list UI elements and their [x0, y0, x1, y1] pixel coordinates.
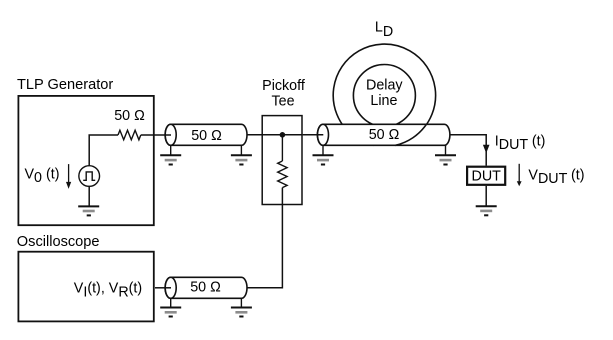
coax cable 2 left end	[165, 277, 176, 298]
svg-text:Delay: Delay	[366, 77, 403, 93]
node junction dot	[280, 132, 286, 138]
svg-text:Pickoff: Pickoff	[262, 78, 305, 94]
wire coax1 to tee	[247, 134, 303, 136]
svg-text:50 Ω: 50 Ω	[190, 279, 221, 295]
wire osc to bottom coax	[155, 287, 171, 289]
wire resistor to coax1	[141, 134, 171, 136]
delay line front arc	[395, 124, 426, 145]
ground coax2 right	[231, 298, 252, 316]
svg-text:Oscilloscope: Oscilloscope	[17, 234, 100, 250]
svg-text:Tee: Tee	[271, 93, 294, 109]
source U1 pulse generator	[79, 166, 100, 187]
svg-text:TLP Generator: TLP Generator	[17, 77, 113, 93]
svg-text:DUT: DUT	[472, 168, 502, 184]
ground delay coax left	[313, 145, 334, 164]
box Oscilloscope	[18, 252, 153, 322]
delay line outer loop	[333, 44, 435, 145]
ground coax1 left	[160, 145, 181, 164]
wire source to ground	[88, 186, 90, 206]
coax cable 1 left end	[165, 124, 176, 145]
ground DUT	[476, 206, 497, 215]
ground delay coax right	[435, 145, 456, 164]
coax cable 2 body	[165, 277, 247, 298]
svg-text:Line: Line	[370, 93, 397, 109]
resistor R1 50 ohm	[118, 130, 141, 140]
ground coax2 left	[160, 298, 181, 316]
coax cable 1 body	[165, 124, 247, 145]
wire delay coax to DUT	[450, 135, 486, 166]
ground coax1 right	[231, 145, 252, 164]
wire DUT to ground	[485, 186, 487, 207]
delay coax left end	[318, 124, 329, 145]
box TLP Generator	[18, 96, 153, 225]
delay line inner loop	[353, 65, 415, 127]
svg-text:50 Ω: 50 Ω	[369, 127, 400, 143]
wire source to resistor	[89, 135, 118, 166]
box Pickoff Tee	[262, 116, 302, 205]
arrow V0	[66, 164, 71, 189]
arrow VDUT	[517, 164, 522, 186]
wire dot to resistor	[281, 135, 283, 161]
wire tee resistor down to bottom coax	[247, 188, 283, 288]
ground source	[78, 206, 99, 215]
arrow IDUT	[483, 145, 490, 154]
svg-text:50 Ω: 50 Ω	[114, 108, 145, 124]
svg-text:50 Ω: 50 Ω	[191, 128, 222, 144]
wire tee to delay coax	[303, 134, 324, 136]
delay coax body	[317, 124, 450, 145]
resistor R2 pickoff	[278, 161, 287, 188]
box DUT	[467, 167, 505, 185]
